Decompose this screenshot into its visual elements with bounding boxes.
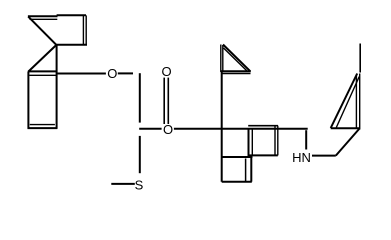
bond main chain down to amine N — [305, 130, 307, 149]
svg-text:O: O — [163, 122, 173, 137]
square 2 right double bond line 1 — [274, 126, 276, 156]
ring A top double-bond inner line — [30, 18, 58, 20]
ring A right double bond outer line — [82, 15, 84, 44]
triangle C hypotenuse inner double line — [224, 48, 247, 71]
ring A right double bond inner line — [85, 15, 87, 44]
svg-text:O: O — [161, 64, 171, 79]
triangle C hypotenuse bond — [223, 45, 250, 72]
ring A bottom edge bond — [55, 44, 87, 46]
square 3 right double bond outer line — [250, 157, 252, 182]
main vertical bond through central rings — [221, 71, 223, 181]
square 2 bottom bond — [249, 154, 278, 156]
ring D bottom bond — [331, 127, 360, 129]
svg-text:O: O — [107, 66, 117, 81]
square 3 right double bond inner line — [245, 159, 247, 182]
triangle C bottom double-bond inner line — [221, 73, 251, 75]
square 2 right double bond line 2 — [277, 126, 279, 156]
square 2 top double-bond outer line — [248, 125, 278, 127]
ring A top edge bond left segment — [28, 15, 58, 17]
ring B right vertical bond from apex — [56, 45, 58, 129]
ring B bottom double-bond inner line — [30, 124, 55, 126]
ring D right double bond line 2 — [359, 74, 361, 130]
ring A top edge bond right segment — [57, 14, 86, 16]
ring B left vertical bond — [27, 71, 29, 128]
bond chain junction to ester O2 — [139, 128, 161, 130]
methyl bond to S — [111, 183, 135, 185]
ring B top edge bond — [28, 70, 56, 72]
chain vertical bond upper segment — [139, 73, 141, 122]
square 2 left double-bond inner line — [251, 129, 253, 155]
triangle C left double bond line 1 — [220, 45, 222, 73]
ring B bottom bond — [28, 127, 58, 129]
bond apex to box B top-left vertex — [28, 45, 56, 72]
square 3 bottom bond — [222, 181, 252, 183]
main horizontal bond O2 to amine branch — [174, 128, 308, 130]
bond methylene to ring D — [336, 129, 360, 156]
ring B top double-bond inner line — [29, 74, 56, 76]
triangle C left double bond line 2 — [222, 45, 224, 72]
bond N to methylene — [312, 155, 336, 157]
ring D methyl stub bond — [359, 44, 361, 73]
square 1 bottom bond — [222, 156, 253, 158]
bond ring B to ether O1 — [57, 73, 106, 75]
carbonyl C=O double bond line 2 — [167, 78, 169, 124]
bond O1 to chain carbon — [118, 72, 133, 74]
ring A diagonal bond to apex — [28, 17, 56, 45]
triangle C bottom bond — [221, 70, 251, 72]
chain vertical bond lower segment to S — [139, 136, 141, 173]
svg-text:HN: HN — [292, 150, 311, 165]
carbonyl C=O double bond line 1 — [163, 78, 165, 124]
square 1 right vertical bond — [248, 129, 250, 157]
ring D hypotenuse inner double line — [336, 77, 359, 128]
ring D hypotenuse bond — [331, 74, 358, 129]
svg-text:S: S — [135, 178, 144, 193]
ring D right double bond line 1 — [355, 75, 357, 128]
